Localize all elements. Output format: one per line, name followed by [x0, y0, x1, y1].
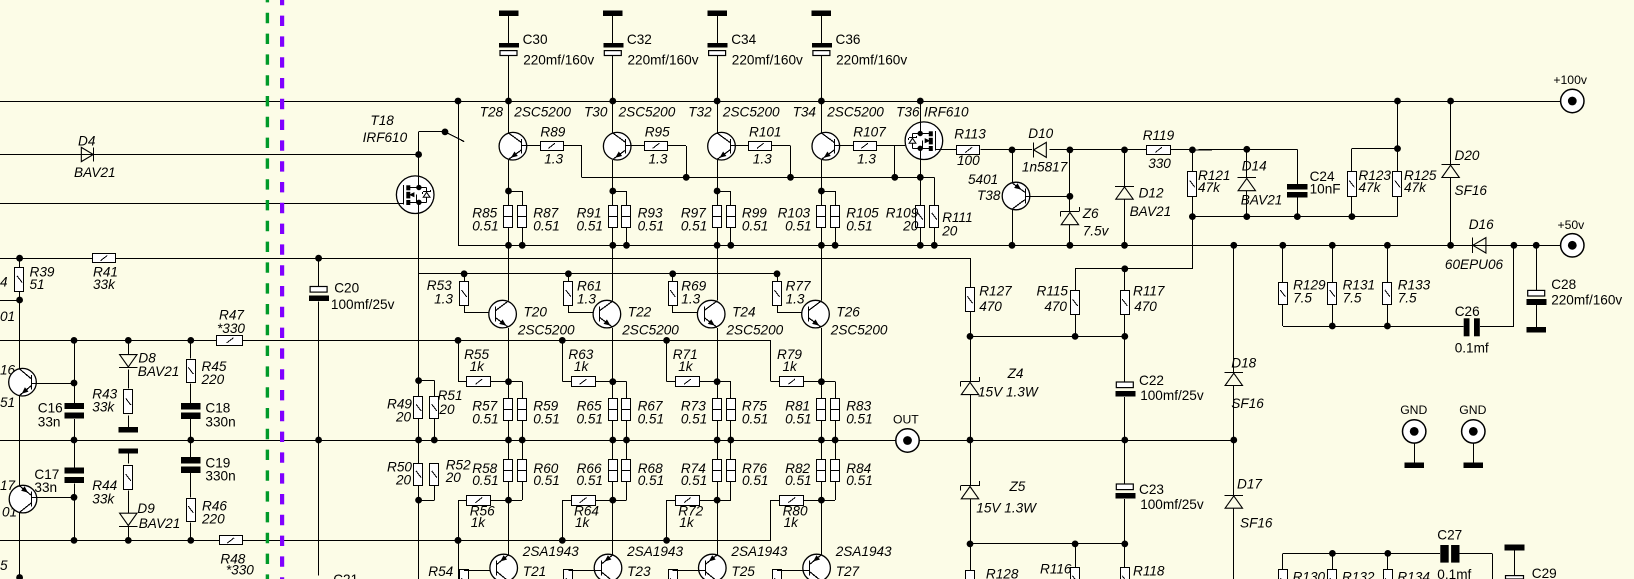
wire R109 top — [920, 177, 922, 205]
svg-text:GND: GND — [1400, 403, 1427, 417]
wire R72 drop — [666, 500, 668, 540]
wire R101 out — [772, 145, 791, 147]
transistor T28 — [499, 132, 527, 160]
svg-text:7.5: 7.5 — [1293, 291, 1312, 306]
label R128 — [986, 567, 1019, 579]
wire R115 riser — [1075, 269, 1077, 291]
wire R61 top — [568, 274, 570, 282]
wire R73 low — [717, 421, 719, 440]
transistor T25 — [699, 554, 727, 579]
resistor R78 (clipped) — [773, 570, 782, 579]
wire R107 drop — [894, 146, 896, 178]
resistor R77 — [773, 282, 782, 306]
wire R129 top — [1282, 245, 1284, 282]
label R51 value — [438, 402, 455, 417]
wire R66 top — [612, 440, 614, 459]
wire R134 drop — [1387, 553, 1389, 569]
label C18 value — [205, 414, 235, 429]
svg-text:R119: R119 — [1143, 128, 1175, 143]
junction R109/rail — [917, 242, 924, 249]
svg-text:0.51: 0.51 — [638, 412, 664, 427]
wire D18 top — [1233, 245, 1235, 372]
junction Z5/bus544 — [967, 541, 974, 548]
svg-text:D18: D18 — [1231, 356, 1256, 371]
svg-text:SF16: SF16 — [1240, 515, 1273, 530]
svg-text:R117: R117 — [1133, 284, 1165, 299]
transistor T32 — [708, 132, 736, 160]
resistor R68 — [622, 460, 632, 482]
resistor R79 — [780, 377, 804, 387]
svg-text:*330: *330 — [226, 563, 254, 578]
svg-text:20: 20 — [395, 410, 412, 425]
label C24 — [1310, 169, 1335, 184]
wire R121 low — [1192, 197, 1194, 217]
capacitor C26 — [1464, 318, 1480, 336]
svg-text:2SC5200: 2SC5200 — [726, 323, 784, 338]
resistor R125 — [1393, 172, 1402, 197]
resistor R80 — [780, 496, 804, 506]
svg-text:+100v: +100v — [1553, 73, 1587, 87]
transistor T27 — [803, 554, 831, 579]
resistor R118 (clipped) — [1121, 568, 1130, 579]
svg-text:01: 01 — [0, 309, 15, 324]
wire R82 top — [821, 440, 823, 459]
svg-text:20: 20 — [941, 223, 958, 238]
wire Z5 top — [970, 440, 972, 486]
wire R123 link — [1352, 148, 1398, 150]
wire R130 drop — [1282, 553, 1284, 569]
junction R123/bus216 — [1349, 213, 1356, 220]
svg-text:T26: T26 — [836, 305, 860, 320]
label C16 — [38, 401, 63, 416]
wire R51-out — [434, 419, 436, 440]
resistor R63 — [572, 377, 596, 387]
svg-text:R101: R101 — [749, 124, 782, 139]
junction C20/out — [315, 437, 322, 444]
resistor R45 — [187, 360, 196, 383]
wire col74 c — [74, 484, 76, 541]
resistor R113 — [957, 146, 980, 155]
junction R97/rail — [714, 242, 721, 249]
wire C24 drop — [1297, 149, 1299, 184]
svg-text:470: 470 — [1134, 299, 1157, 314]
label R66 — [577, 461, 602, 476]
junction R134/bus553 — [1384, 550, 1391, 557]
wire T16-T17 link — [19, 396, 21, 485]
junction R80 node — [818, 497, 825, 504]
label R57 value — [472, 412, 498, 427]
capacitor C32 — [603, 43, 623, 56]
wire R125 top — [1397, 149, 1399, 172]
wire R127 bend v — [970, 258, 972, 288]
wire 1.3 ohm bus — [582, 177, 934, 179]
wire D18 low — [1233, 386, 1235, 441]
label D8 value — [138, 364, 180, 379]
svg-text:Z6: Z6 — [1082, 206, 1099, 221]
label C26 — [1455, 304, 1480, 319]
svg-text:100: 100 — [957, 153, 980, 168]
svg-text:51: 51 — [30, 277, 45, 292]
wire D8-R43 — [128, 370, 130, 389]
label R72 value — [679, 515, 695, 530]
wire R45-C18 — [190, 384, 192, 404]
label R113 value — [957, 153, 980, 168]
wire R39 bottom — [19, 291, 21, 368]
capacitor C30 — [499, 43, 519, 56]
label R134 — [1397, 570, 1430, 579]
resistor R133 — [1383, 283, 1392, 305]
wire R78 base wire — [777, 570, 810, 572]
wire OUT rail — [0, 440, 1234, 442]
wire C26 riser — [1513, 245, 1515, 326]
junction R71/rail340 — [663, 337, 670, 344]
resistor R62 (clipped) — [564, 570, 573, 579]
wire 458 low — [458, 540, 460, 579]
purple dashed separator — [280, 0, 284, 579]
wire R55 lead — [458, 381, 467, 383]
svg-text:1.3: 1.3 — [544, 151, 563, 166]
svg-text:IRF610: IRF610 — [363, 130, 408, 145]
label R48 value — [226, 563, 254, 578]
resistor R49 — [414, 397, 423, 419]
label D4 value — [74, 165, 116, 180]
junction R116/bus544 — [1072, 541, 1079, 548]
wire T22 emitter — [612, 328, 614, 382]
svg-text:0.51: 0.51 — [785, 473, 811, 488]
wire Z6 low — [1069, 225, 1071, 246]
label R115 value — [1044, 299, 1067, 314]
svg-text:R89: R89 — [540, 124, 565, 139]
wire R84 low — [835, 481, 837, 500]
capacitor C24 — [1287, 184, 1307, 198]
svg-text:1.3: 1.3 — [649, 151, 668, 166]
label R60 — [533, 461, 558, 476]
label cut text 51 — [0, 395, 15, 410]
label R63 — [568, 347, 593, 362]
wire C32 stem1 — [612, 16, 614, 43]
wire upper bias rail — [0, 340, 771, 342]
svg-text:33n: 33n — [34, 480, 57, 495]
svg-text:0.51: 0.51 — [577, 218, 603, 233]
wire T34 emitter — [821, 160, 823, 206]
zener Z4 — [961, 377, 980, 395]
svg-text:T34: T34 — [793, 104, 817, 119]
junction D17/out — [1230, 437, 1237, 444]
wire R62 base wire — [568, 570, 601, 572]
svg-text:C20: C20 — [334, 281, 359, 296]
terminator bar upper — [119, 427, 139, 432]
svg-text:SF16: SF16 — [1231, 396, 1264, 411]
junction bus13/R107 — [891, 174, 898, 181]
svg-text:0.51: 0.51 — [681, 218, 707, 233]
resistor R74 — [713, 460, 722, 482]
svg-text:1k: 1k — [470, 359, 486, 374]
resistor R111 — [930, 206, 939, 228]
resistor R59 — [518, 399, 527, 421]
junction Z6/rail245 — [1067, 242, 1074, 249]
transistor T30 — [603, 132, 631, 160]
junction R65/out — [609, 437, 616, 444]
junction T20 em node — [505, 378, 512, 385]
wire R81 low — [821, 421, 823, 440]
wire R75 drop — [730, 382, 732, 399]
resistor R101 — [749, 142, 772, 151]
mosfet T18 — [396, 176, 434, 214]
svg-text:T32: T32 — [688, 104, 712, 119]
label R63 value — [574, 359, 590, 374]
label T27 — [836, 564, 860, 579]
svg-text:0.51: 0.51 — [681, 473, 707, 488]
junction R59/out — [519, 437, 526, 444]
label D14 value — [1241, 193, 1283, 208]
resistor R127 — [966, 288, 975, 312]
junction switch/rail1 — [455, 98, 462, 105]
wire R84 top — [835, 440, 837, 459]
junction T32 emitter node — [714, 188, 721, 195]
label R115 — [1037, 284, 1069, 299]
label cut text 5 — [0, 558, 8, 573]
junction col74/T17 — [71, 494, 78, 501]
label cut text 16 — [0, 363, 16, 378]
capacitor C28 — [1527, 290, 1547, 304]
wire C34 stem2 — [717, 56, 719, 102]
wire T26 emitter — [821, 328, 823, 382]
wire R121 col down — [1192, 217, 1194, 269]
svg-text:100mf/25v: 100mf/25v — [1140, 497, 1204, 512]
wire R59 low — [522, 421, 524, 440]
wire R65 low — [612, 421, 614, 440]
capacitor C22 — [1115, 382, 1135, 396]
terminator C34 — [707, 11, 727, 16]
label R107 value — [857, 151, 876, 166]
svg-text:R115: R115 — [1037, 284, 1069, 299]
wire T22 base lead — [568, 312, 600, 314]
label D17 — [1237, 477, 1262, 492]
diode D8 — [119, 355, 138, 368]
svg-text:7.5: 7.5 — [1398, 291, 1417, 306]
label T38 part — [968, 172, 998, 187]
wire R51 drop — [434, 381, 436, 397]
wire R56 left — [458, 500, 467, 502]
wire R67 low — [626, 421, 628, 440]
resistor R128 (clipped) — [966, 571, 975, 579]
label R129 — [1293, 278, 1326, 293]
wire R80 drop — [770, 500, 772, 540]
wire R133 low — [1387, 304, 1389, 326]
wire R85 low — [508, 227, 510, 245]
wire T16 base — [31, 383, 74, 385]
label C19 value — [205, 469, 235, 484]
label R111 value — [941, 223, 958, 238]
wire C20-out — [318, 301, 320, 440]
svg-text:T20: T20 — [524, 305, 548, 320]
wire T32 emitter — [717, 160, 719, 206]
resistor R105 — [831, 206, 840, 228]
junction R49/out — [415, 437, 422, 444]
wire R76 low — [730, 481, 732, 500]
wire stub rail — [0, 300, 20, 302]
wire switch vert — [458, 101, 460, 245]
svg-text:IRF610: IRF610 — [924, 104, 969, 119]
label R53 value — [434, 292, 453, 307]
wire R65 drop — [612, 382, 614, 399]
junction R56/rail540 — [455, 537, 462, 544]
svg-text:T22: T22 — [628, 305, 652, 320]
resistor R66 — [608, 460, 617, 482]
terminator GND1 — [1404, 463, 1424, 468]
resistor R53 — [460, 282, 469, 306]
label R117 value — [1134, 299, 1157, 314]
label R45 value — [201, 372, 225, 387]
wire R97 low — [717, 227, 719, 245]
svg-text:0.51: 0.51 — [638, 218, 664, 233]
wire bus269 — [1075, 268, 1192, 270]
junction R64/rail540 — [559, 537, 566, 544]
wire Z5 low — [970, 499, 972, 544]
wire T32 base lead — [730, 145, 749, 147]
label R101 — [749, 124, 782, 139]
wire R83 drop — [835, 382, 837, 399]
svg-text:2SC5200: 2SC5200 — [517, 323, 575, 338]
wire C30 stem2 — [508, 56, 510, 102]
label D10 — [1028, 126, 1053, 141]
wire R67 branch — [613, 381, 627, 383]
junction D20/rail1 — [1447, 98, 1454, 105]
wire R79 lead — [771, 381, 780, 383]
wire GND2 stem — [1473, 443, 1475, 463]
wire R45 top — [190, 340, 192, 358]
wire R68 bend — [613, 500, 627, 502]
svg-text:0.51: 0.51 — [846, 473, 872, 488]
label R65 value — [577, 412, 603, 427]
diode D17 — [1225, 496, 1244, 509]
wire rail1 end — [1451, 101, 1561, 103]
label D12 — [1139, 185, 1164, 200]
junction D9/rail540 — [125, 537, 132, 544]
wire R59 drop — [522, 382, 524, 399]
label C18 — [205, 401, 230, 416]
wire R80 left — [771, 500, 780, 502]
junction D20/rail245 — [1447, 242, 1454, 249]
wire R113-D10 — [980, 149, 1031, 151]
svg-text:R128: R128 — [986, 567, 1019, 579]
wire R69 low — [672, 306, 674, 313]
wire T17 down — [19, 513, 21, 579]
wire T18 drain — [418, 132, 420, 176]
wire R93 low — [626, 227, 628, 245]
transistor T17 — [9, 485, 37, 513]
junction R111/rail — [931, 242, 938, 249]
label R56 — [470, 504, 495, 519]
label R95 — [645, 124, 670, 139]
label R75 — [742, 399, 767, 414]
svg-text:7.5: 7.5 — [1343, 291, 1362, 306]
wire R91 low — [612, 227, 614, 245]
label T26 value — [830, 323, 888, 338]
junction D12/line150 — [1121, 147, 1128, 154]
junction D12/rail245 — [1121, 242, 1128, 249]
wire C23 low — [1124, 499, 1126, 544]
resistor R39 — [15, 268, 24, 292]
label C21 — [333, 572, 358, 579]
label R58 — [472, 461, 497, 476]
junction R121/bus216 — [1189, 213, 1196, 220]
resistor R69 — [669, 282, 678, 306]
label T18 — [370, 113, 394, 128]
label C22 value — [1140, 388, 1204, 403]
junction R75/out — [727, 437, 734, 444]
wire T36 source — [920, 159, 922, 177]
junction T26 em node — [818, 378, 825, 385]
junction Z6/line150 — [1067, 147, 1074, 154]
wire R74 low — [717, 481, 719, 500]
svg-text:Z4: Z4 — [1007, 366, 1024, 381]
svg-text:470: 470 — [1044, 299, 1067, 314]
wire R59 branch — [509, 381, 523, 383]
label R46 — [202, 499, 227, 514]
wire T20 base lead — [464, 312, 496, 314]
resistor R55 — [467, 377, 491, 387]
wire bus544 — [970, 543, 1125, 545]
label R53 — [427, 278, 452, 293]
resistor R75 — [726, 399, 735, 421]
wire C23 top — [1124, 440, 1126, 484]
label R80 value — [784, 515, 800, 530]
wire T20 collector — [508, 245, 510, 300]
wire R95 out — [668, 145, 687, 147]
wire emitter bottom rail — [458, 245, 1561, 247]
svg-text:C29: C29 — [1532, 566, 1557, 579]
label R131 value — [1343, 291, 1362, 306]
wire R132 drop — [1332, 553, 1334, 569]
wire R49 branch — [419, 380, 435, 382]
switch blade — [445, 132, 464, 142]
wire R60 top — [522, 440, 524, 459]
label C27 — [1437, 527, 1462, 542]
label T21 value — [522, 544, 579, 559]
junction bus13/R101 — [787, 174, 794, 181]
wire R56 lead — [491, 500, 509, 502]
label D20 — [1455, 148, 1480, 163]
diode D4 — [81, 147, 93, 161]
label OUT — [893, 413, 919, 427]
label R93 — [638, 206, 663, 221]
wire R103 low — [821, 227, 823, 245]
svg-text:BAV21: BAV21 — [74, 165, 116, 180]
label C26 value — [1455, 340, 1489, 355]
label T36 — [896, 104, 920, 119]
junction D14/bus216 — [1243, 213, 1250, 220]
wire T20 emitter — [508, 328, 510, 382]
junction T38 base/Z6 — [1067, 193, 1074, 200]
wire R87 low — [522, 227, 524, 245]
wire R93 drop — [626, 191, 628, 205]
diode D9 — [119, 513, 138, 526]
wire D9-rail540 — [128, 526, 130, 540]
junction C22/out — [1121, 437, 1128, 444]
label R58 value — [472, 473, 498, 488]
svg-text:2SC5200: 2SC5200 — [826, 104, 884, 119]
resistor R73 — [713, 399, 722, 421]
label C28 value — [1551, 292, 1622, 307]
label R73 value — [681, 412, 707, 427]
svg-text:R118: R118 — [1133, 564, 1165, 579]
terminal GND2 — [1462, 420, 1485, 443]
resistor R51 — [430, 397, 439, 419]
transistor T26 — [802, 300, 830, 328]
wire C18-out — [190, 419, 192, 440]
label R113 — [954, 126, 986, 141]
